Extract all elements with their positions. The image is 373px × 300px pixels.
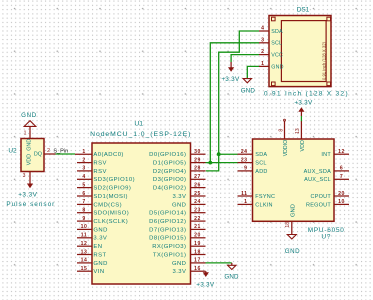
- U? pin 8 unconnected-end marker: [284, 119, 286, 121]
- svg-text:D3(GPIO0): D3(GPIO0): [153, 177, 187, 183]
- U? pin 8 (VDDIO, top): [279, 121, 289, 157]
- U? pin 9 (ADD): [238, 166, 268, 175]
- svg-text:CMD(CS): CMD(CS): [93, 202, 122, 208]
- U1 pin 8 (SDO(MISO)): [77, 208, 129, 217]
- IC U1 NodeMCU body: [92, 143, 191, 284]
- DS1 mounting hole top-left: [272, 17, 276, 21]
- U1 pin 28 (D2(GPIO4)): [153, 166, 206, 175]
- svg-text:6: 6: [82, 191, 85, 197]
- IC U? MPU-6050 body: [253, 139, 335, 221]
- svg-text:8: 8: [82, 208, 85, 214]
- svg-text:24: 24: [241, 149, 248, 155]
- wire S_Pin from U2 to U1 pin 1: [56, 153, 76, 155]
- DS1 mounting hole bottom-right: [327, 82, 331, 86]
- svg-text:28: 28: [194, 166, 201, 172]
- +3.3V power symbol above MPU: [300, 109, 302, 116]
- svg-text:D6(GPIO12): D6(GPIO12): [149, 219, 186, 225]
- svg-text:U?: U?: [321, 234, 331, 241]
- svg-text:14: 14: [81, 258, 88, 264]
- U1 pin 4 (SD3(GPIO10)): [77, 174, 135, 183]
- svg-text:GND: GND: [172, 261, 186, 267]
- svg-text:13: 13: [81, 249, 88, 255]
- svg-text:SDA: SDA: [255, 152, 267, 158]
- svg-text:20: 20: [338, 191, 345, 197]
- U? pin 1 (CLKIN): [238, 199, 273, 208]
- svg-text:RSV: RSV: [93, 161, 106, 167]
- svg-text:12: 12: [81, 241, 88, 247]
- U1 pin 19 (RX(GPIO3)): [152, 241, 205, 250]
- svg-text:D2(GPIO4): D2(GPIO4): [153, 169, 187, 175]
- U1 pin 26 (D4(GPIO2)): [153, 182, 206, 191]
- svg-text:16: 16: [194, 266, 201, 272]
- U1 pin 9 (CLK(SCLK)): [77, 216, 128, 225]
- svg-text:GND: GND: [27, 139, 33, 151]
- U? pin 6 (AUX_SDA): [304, 166, 349, 175]
- svg-text:23: 23: [241, 157, 248, 163]
- svg-text:18: 18: [194, 249, 201, 255]
- U2 pin 2 (DQ, right): [44, 153, 56, 155]
- U? pin 13 (VDD, top): [295, 121, 306, 152]
- svg-text:1: 1: [244, 199, 247, 205]
- U1 pin 25 (3.3V): [172, 191, 205, 200]
- DS1 mounting hole top-right: [327, 17, 331, 21]
- junction SCL: [208, 161, 212, 165]
- U1 pin 1 (A0(ADC0)): [75, 149, 124, 158]
- U1 pin 11 (3.3V): [77, 233, 107, 242]
- svg-text:11: 11: [241, 191, 247, 197]
- svg-text:D5(GPIO14): D5(GPIO14): [149, 211, 186, 217]
- svg-text:22: 22: [194, 216, 201, 222]
- svg-text:EN: EN: [93, 244, 102, 250]
- svg-text:SCL: SCL: [255, 161, 266, 167]
- svg-text:CLKIN: CLKIN: [255, 202, 272, 208]
- svg-text:FSYNC: FSYNC: [255, 194, 275, 200]
- svg-text:VDD: VDD: [27, 154, 33, 165]
- U? pin 12 (INT): [321, 149, 349, 158]
- U1 pin 13 (RST): [77, 249, 107, 258]
- svg-text:17: 17: [194, 258, 201, 264]
- U? pin 23 (SCL): [238, 157, 267, 166]
- svg-text:GND: GND: [21, 112, 37, 119]
- svg-text:+3.3V: +3.3V: [294, 100, 313, 107]
- svg-text:25: 25: [194, 191, 201, 197]
- U1 pin 14 (GND): [77, 258, 108, 267]
- svg-text:+3.3V: +3.3V: [196, 281, 215, 288]
- svg-text:RSV: RSV: [93, 169, 106, 175]
- svg-text:26: 26: [194, 182, 201, 188]
- U1 pin 18 (TX(GPIO1)): [153, 249, 206, 258]
- svg-text:GND: GND: [224, 273, 239, 280]
- DS1 pin 3 (SCL): [259, 37, 282, 46]
- svg-text:D1(GPIO5): D1(GPIO5): [153, 161, 187, 167]
- wire SCL net: U1 pin 29 to MPU pin 23: [206, 162, 238, 164]
- wire VDD to +3.3V: [300, 116, 302, 121]
- svg-text:TX(GPIO1): TX(GPIO1): [153, 252, 187, 258]
- svg-text:27: 27: [194, 174, 201, 180]
- svg-text:10: 10: [81, 224, 88, 230]
- svg-text:GND: GND: [93, 227, 107, 233]
- U? pin 18 (GND, bottom): [285, 204, 297, 234]
- wire SDA branch to MPU pin 24: [219, 153, 238, 155]
- svg-text:13: 13: [295, 128, 301, 134]
- DS1 pin 4 (SDA): [259, 26, 283, 35]
- svg-text:GND: GND: [172, 202, 186, 208]
- U1 pin 20 (D8(GPIO15)): [149, 233, 205, 242]
- U1 pin 23 (D5(GPIO14)): [149, 208, 205, 217]
- svg-text:18: 18: [285, 222, 291, 228]
- svg-text:3.3V: 3.3V: [172, 269, 186, 275]
- svg-text:SDO(MISO): SDO(MISO): [93, 211, 129, 217]
- U2 pin 3 (VDD, bottom): [29, 172, 31, 177]
- svg-text:U1: U1: [134, 121, 143, 128]
- svg-text:CPOUT: CPOUT: [311, 194, 332, 200]
- svg-text:A0(ADC0): A0(ADC0): [93, 152, 123, 158]
- svg-text:CLK(SCLK): CLK(SCLK): [93, 219, 128, 225]
- svg-text:29: 29: [194, 157, 201, 163]
- svg-text:4: 4: [82, 174, 85, 180]
- svg-text:20: 20: [194, 233, 201, 239]
- svg-text:SD1(MOSI): SD1(MOSI): [93, 194, 128, 200]
- svg-text:GND: GND: [291, 204, 297, 217]
- DS1 pin 2 (VCC): [259, 49, 283, 58]
- svg-text:7: 7: [82, 199, 85, 205]
- svg-text:SD2(GPIO9): SD2(GPIO9): [93, 186, 131, 192]
- junction SDA: [217, 152, 221, 156]
- U1 pin 29 (D1(GPIO5)): [153, 157, 206, 166]
- svg-text:11: 11: [81, 233, 87, 239]
- svg-text:4: 4: [261, 26, 264, 32]
- wire U1 pin 17 to ground: [206, 262, 232, 264]
- svg-text:+3.3V: +3.3V: [18, 191, 37, 198]
- svg-text:30: 30: [194, 149, 201, 155]
- svg-text:15: 15: [81, 266, 88, 272]
- U1 pin 30 (D0(GPIO16)): [149, 149, 205, 158]
- U? pin 7 (AUX_SCL): [304, 174, 349, 183]
- U1 pin 17 (GND): [172, 258, 206, 267]
- svg-text:7: 7: [340, 174, 343, 180]
- svg-text:6: 6: [340, 166, 343, 172]
- svg-text:DQ: DQ: [34, 151, 42, 157]
- +3.3V power symbol below U1 pin 16: [205, 271, 207, 272]
- svg-text:23: 23: [194, 208, 201, 214]
- svg-text:12: 12: [338, 149, 345, 155]
- svg-text:1: 1: [82, 149, 85, 155]
- U1 pin 2 (RSV): [77, 157, 107, 166]
- svg-text:GND: GND: [93, 261, 107, 267]
- U? pin 10 (REGOUT): [306, 199, 349, 208]
- svg-text:GND: GND: [241, 88, 256, 95]
- svg-text:VDD: VDD: [300, 140, 306, 151]
- U1 pin 21 (D7(GPIO13)): [149, 224, 205, 233]
- svg-text:U2: U2: [8, 147, 17, 154]
- svg-text:+3.3V: +3.3V: [221, 76, 240, 83]
- svg-text:RX(GPIO3): RX(GPIO3): [152, 244, 186, 250]
- svg-text:24: 24: [194, 199, 201, 205]
- svg-text:5: 5: [82, 182, 85, 188]
- svg-text:DS1: DS1: [297, 7, 310, 14]
- ground symbol below MPU: [287, 235, 296, 240]
- svg-text:VIN: VIN: [93, 269, 104, 275]
- U1 pin 5 (SD2(GPIO9)): [77, 182, 131, 191]
- U1 pin 27 (D3(GPIO0)): [153, 174, 206, 183]
- ground symbol above U2: [29, 126, 31, 130]
- wire SDA net: U1 pin 28 to OLED SDA: [206, 31, 259, 171]
- svg-text:3: 3: [23, 173, 26, 179]
- svg-text:GND: GND: [271, 64, 283, 70]
- +3.3V power symbol at OLED VCC: [230, 62, 232, 68]
- svg-text:0.91 Inch (128 X 32): 0.91 Inch (128 X 32): [321, 41, 326, 80]
- svg-text:1: 1: [24, 130, 27, 136]
- svg-text:3: 3: [261, 37, 264, 43]
- svg-text:3.3V: 3.3V: [93, 236, 107, 242]
- svg-text:INT: INT: [321, 152, 331, 158]
- svg-text:NodeMCU_1.0_(ESP-12E): NodeMCU_1.0_(ESP-12E): [90, 131, 191, 138]
- U1 pin 3 (RSV): [77, 166, 107, 175]
- svg-text:0.91 Inch (128 X 32): 0.91 Inch (128 X 32): [264, 90, 349, 97]
- svg-text:GND: GND: [285, 248, 300, 255]
- svg-text:9: 9: [82, 216, 85, 222]
- DS1 pin 1 (GND): [259, 61, 284, 70]
- svg-text:19: 19: [194, 241, 201, 247]
- svg-text:Pulse sensor: Pulse sensor: [6, 201, 55, 208]
- wire SCL vertical to OLED SCL: [210, 43, 259, 163]
- svg-text:VCC: VCC: [271, 53, 283, 59]
- svg-text:SDA: SDA: [271, 29, 283, 35]
- DS1 screen area: [281, 21, 326, 82]
- ground symbol at U1 pin 17: [231, 263, 233, 265]
- U1 pin 12 (EN): [77, 241, 102, 250]
- svg-text:3: 3: [82, 166, 85, 172]
- U1 pin 6 (SD1(MOSI)): [77, 191, 128, 200]
- svg-text:SD3(GPIO10): SD3(GPIO10): [93, 177, 135, 183]
- svg-text:D7(GPIO13): D7(GPIO13): [149, 227, 186, 233]
- svg-text:ADD: ADD: [255, 169, 267, 175]
- svg-text:1: 1: [261, 61, 264, 67]
- display DS1 OLED body: [269, 16, 331, 87]
- DS1 mounting hole bottom-left: [272, 82, 276, 86]
- ground symbol at OLED GND: [243, 79, 251, 83]
- U? pin 20 (CPOUT): [311, 191, 350, 200]
- U? pin 24 (SDA): [238, 149, 268, 158]
- U1 pin 15 (VIN): [77, 266, 105, 275]
- svg-text:D4(GPIO2): D4(GPIO2): [153, 186, 187, 192]
- +3.3V power symbol below U2: [29, 177, 31, 185]
- wire OLED VCC to +3.3V: [231, 55, 259, 62]
- svg-text:3.3V: 3.3V: [172, 194, 186, 200]
- svg-text:RST: RST: [93, 252, 106, 258]
- svg-text:2: 2: [261, 49, 264, 55]
- svg-text:21: 21: [194, 224, 201, 230]
- U1 pin 16 (3.3V): [172, 266, 205, 275]
- svg-text:8: 8: [279, 129, 285, 132]
- svg-text:9: 9: [244, 166, 247, 172]
- svg-text:REGOUT: REGOUT: [306, 202, 331, 208]
- svg-text:SCL: SCL: [271, 41, 282, 47]
- U1 pin 24 (GND): [172, 199, 206, 208]
- svg-text:AUX_SDA: AUX_SDA: [304, 169, 332, 175]
- svg-text:VDDIO: VDDIO: [283, 140, 289, 156]
- U? pin 11 (FSYNC): [238, 191, 276, 200]
- svg-text:AUX_SCL: AUX_SCL: [304, 177, 331, 183]
- svg-text:D0(GPIO16): D0(GPIO16): [149, 152, 186, 158]
- wire OLED GND to ground: [247, 66, 259, 78]
- sensor U2 pulse-sensor body: [21, 139, 44, 172]
- U1 pin 22 (D6(GPIO12)): [149, 216, 205, 225]
- U2 pin 1 (GND, top): [29, 130, 31, 138]
- svg-text:2: 2: [47, 148, 50, 154]
- svg-text:2: 2: [82, 157, 85, 163]
- U1 pin 7 (CMD(CS)): [77, 199, 122, 208]
- svg-text:10: 10: [338, 199, 345, 205]
- U1 pin 10 (GND): [77, 224, 108, 233]
- svg-text:D8(GPIO15): D8(GPIO15): [149, 236, 186, 242]
